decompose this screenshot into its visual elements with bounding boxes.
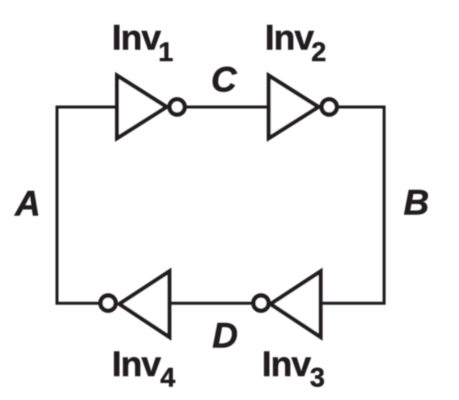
inverter Inv3 triangle: [271, 271, 321, 337]
inverter Inv2 output bubble: [322, 99, 337, 114]
svg-text:A: A: [14, 183, 41, 223]
wire: right loop node B (top-right corner, right vertical, bottom-right corner): [321, 107, 385, 303]
svg-text:4: 4: [160, 363, 175, 393]
svg-text:B: B: [404, 183, 430, 223]
svg-text:Inv: Inv: [265, 17, 315, 57]
svg-text:2: 2: [311, 37, 326, 67]
inverter Inv2 triangle: [269, 76, 319, 139]
svg-text:Inv: Inv: [112, 344, 162, 384]
inverter Inv4 triangle: [119, 271, 169, 337]
inverter Inv3 output bubble: [253, 296, 268, 311]
inverter Inv4 output bubble: [101, 296, 116, 311]
svg-text:C: C: [211, 59, 238, 99]
wire: left loop node A (top-left corner, left vertical, bottom-left corner): [57, 107, 118, 303]
wire: node D segment between Inv3 output bubble and Inv4 input: [168, 302, 252, 305]
wire: node C segment between Inv1 output bubble and Inv2 input: [187, 106, 270, 109]
svg-text:1: 1: [158, 37, 173, 67]
svg-text:Inv: Inv: [262, 344, 312, 384]
svg-text:D: D: [212, 316, 238, 356]
svg-text:Inv: Inv: [112, 17, 162, 57]
inverter Inv1 triangle: [117, 76, 167, 139]
inverter Inv1 output bubble: [170, 99, 185, 114]
svg-text:3: 3: [310, 363, 325, 393]
